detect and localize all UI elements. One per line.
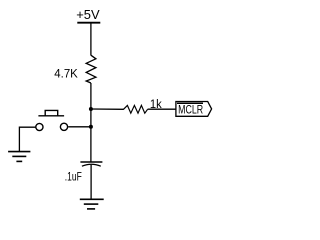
svg-text:4.7K: 4.7K	[54, 67, 78, 81]
svg-text:MCLR: MCLR	[178, 105, 203, 117]
svg-text:.1uF: .1uF	[65, 171, 82, 183]
svg-text:+5V: +5V	[76, 7, 100, 22]
